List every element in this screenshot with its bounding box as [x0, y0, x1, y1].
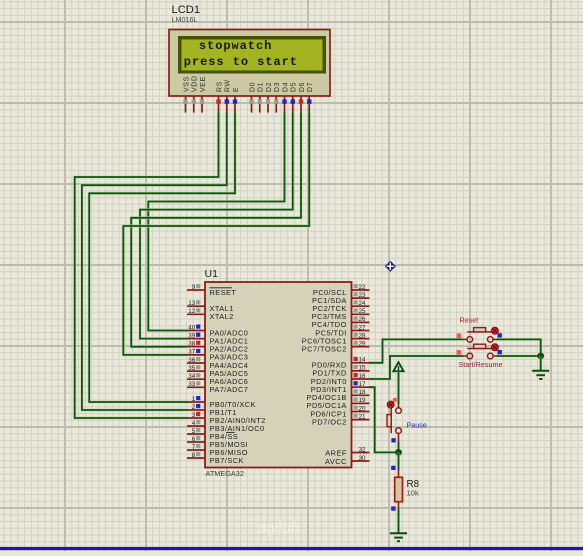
U1 pin 9 (RESET) stub, number, state square and name — [187, 284, 236, 297]
U1 pin 25 (PC3/TMS) stub, number, state square and name — [312, 308, 370, 321]
svg-text:35: 35 — [188, 365, 196, 372]
svg-text:22: 22 — [359, 284, 367, 291]
svg-text:7: 7 — [192, 444, 196, 451]
wire U1 PD3/INT1 (pin17) to Pause net junction — [369, 387, 399, 452]
svg-text:17: 17 — [359, 381, 367, 388]
ground symbol (buttons) — [532, 371, 549, 379]
wire LCD RW (pin5) to U1 PB1 — [82, 112, 227, 410]
svg-text:6: 6 — [192, 436, 196, 443]
U1 pin 20 (PD6/ICP1) stub, number, state square and name — [310, 405, 369, 418]
LCD1 pin 8 (D1) stub, state square and label — [258, 82, 265, 113]
svg-text:2: 2 — [192, 404, 196, 411]
R8 bottom state square — [391, 506, 395, 510]
U1 pin 12 (XTAL2) stub, number, state square and name — [187, 308, 234, 321]
junction node buttons/ground — [537, 353, 544, 360]
Reset button state squares — [457, 333, 502, 338]
svg-text:D5: D5 — [291, 82, 298, 92]
U1 pin 36 (PA4/ADC4) stub, number, state square and name — [187, 357, 248, 370]
svg-text:26: 26 — [359, 316, 367, 323]
U1 pin 21 (PD7/OC2) stub, number, state square and name — [312, 413, 369, 426]
svg-text:D2: D2 — [266, 82, 273, 92]
U1 pin 34 (PA6/ADC6) stub, number, state square and name — [187, 373, 248, 386]
svg-text:10k: 10k — [407, 489, 419, 498]
blue origin marker (diamond with cross) — [385, 261, 396, 272]
U1 pin 28 (PC6/TOSC1) stub, number, state square and name — [302, 332, 370, 345]
LCD module LCD1 (LM016L) body and screen — [169, 30, 330, 97]
svg-text:E: E — [233, 87, 240, 92]
U1 pin 19 (PD5/OC1A) stub, number, state square and name — [307, 397, 370, 410]
svg-text:VSS: VSS — [183, 76, 190, 92]
U1 pin 33 (PA7/ADC7) stub, number, state square and name — [187, 381, 248, 394]
ground symbol (below R8) — [390, 533, 407, 541]
U1 pin 6 (PB5/MOSI) stub, number, state square and name — [187, 436, 248, 449]
U1 pin 30 (AVCC) stub, number and name — [325, 455, 369, 466]
push button (Start/Resume) — [464, 344, 499, 359]
svg-text:PD7/OC2: PD7/OC2 — [312, 417, 347, 426]
svg-text:5: 5 — [192, 428, 196, 435]
svg-text:ATMEGA32: ATMEGA32 — [206, 469, 244, 478]
svg-text:18: 18 — [359, 389, 367, 396]
LCD1 pin 9 (D2) stub, state square and label — [266, 82, 273, 113]
svg-text:stopwatch: stopwatch — [199, 39, 272, 53]
svg-text:15: 15 — [359, 365, 367, 372]
U1 pin 2 (PB1/T1) stub, number, state square and name — [187, 404, 237, 417]
U1 pin 7 (PB6/MISO) stub, number, state square and name — [187, 444, 248, 457]
LCD1 pin 12 (D5) stub, state square and label — [291, 82, 298, 113]
svg-text:RESET: RESET — [210, 288, 237, 297]
svg-text:8: 8 — [192, 452, 196, 459]
wire power terminal to Pause button — [397, 371, 400, 404]
svg-text:38: 38 — [188, 341, 196, 348]
wire LCD RS (pin4) to U1 PB2 — [75, 112, 219, 418]
R8 top state square — [391, 466, 395, 470]
svg-text:XTAL2: XTAL2 — [210, 312, 234, 321]
U1 pin 32 (AREF) stub, number and name — [325, 446, 369, 457]
U1 pin 8 (PB7/SCK) stub, number, state square and name — [187, 452, 244, 465]
svg-text:36: 36 — [188, 357, 196, 364]
wire Start/Resume button to ground rail — [496, 354, 540, 357]
svg-text:D6: D6 — [299, 82, 306, 92]
LCD1 pin 14 (D7) stub, state square and label — [307, 82, 314, 113]
svg-text:20: 20 — [359, 405, 367, 412]
push button (Reset) — [464, 327, 499, 342]
svg-text:VDD: VDD — [192, 75, 199, 92]
svg-text:21: 21 — [359, 413, 367, 420]
svg-text:3: 3 — [192, 412, 196, 419]
svg-text:RW: RW — [225, 79, 232, 92]
LCD1 pin 6 (E) stub, state square and label — [233, 87, 240, 113]
wire LCD D7 (pin14) to U1 PA3 — [123, 112, 309, 355]
faint watermark — [258, 518, 300, 537]
svg-text:Start/Resume: Start/Resume — [459, 360, 503, 369]
push button (Pause), vertical — [387, 401, 401, 441]
LCD1 pin 10 (D3) stub, state square and label — [274, 82, 281, 113]
microcontroller U1 ATMEGA32 body — [205, 282, 352, 468]
svg-text:mylab: mylab — [258, 518, 300, 537]
U1 pin 3 (PB2/AIN0/INT2) stub, number, state square and name — [187, 412, 266, 425]
svg-text:PC7/TOSC2: PC7/TOSC2 — [302, 345, 347, 354]
svg-text:24: 24 — [359, 300, 367, 307]
LCD1 pin 7 (D0) stub, state square and label — [249, 82, 256, 113]
U1 pin 1 (PB0/T0/XCK) stub, number, state square and name — [187, 396, 256, 409]
svg-text:LM016L: LM016L — [172, 15, 198, 24]
wire R8 to ground — [397, 509, 400, 533]
Pause button state squares — [391, 398, 396, 443]
svg-text:34: 34 — [188, 373, 196, 380]
svg-text:33: 33 — [188, 381, 196, 388]
U1 pin 16 (PD2/INT0) stub, number, state square and name — [311, 373, 370, 386]
LCD1 pin 11 (D4) stub, state square and label — [282, 82, 289, 113]
U1 pin 39 (PA1/ADC1) stub, number, state square and name — [187, 332, 248, 345]
LCD module LCD1 reference label — [172, 4, 201, 24]
LCD1 pin 4 (RS) stub, state square and label — [216, 81, 223, 113]
svg-text:28: 28 — [359, 332, 367, 339]
U1 pin 29 (PC7/TOSC2) stub, number, state square and name — [302, 341, 370, 354]
svg-text:D4: D4 — [282, 82, 289, 92]
svg-text:30: 30 — [359, 455, 367, 462]
svg-text:AVCC: AVCC — [325, 457, 347, 466]
U1 pin 22 (PC0/SCL) stub, number, state square and name — [313, 284, 370, 297]
LCD1 pin 2 (VDD) stub, state square and label — [192, 75, 199, 112]
svg-text:RS: RS — [216, 81, 223, 92]
svg-text:40: 40 — [188, 324, 196, 331]
svg-text:37: 37 — [188, 349, 196, 356]
svg-text:9: 9 — [192, 284, 196, 291]
wire U1 PD0/RXD (pin14) to Reset button — [369, 339, 464, 362]
power terminal (VCC up-arrow) — [393, 362, 403, 371]
wire junction to ground symbol — [539, 356, 542, 371]
Start/Resume button state squares — [457, 350, 502, 355]
schematic sheet border (bottom) — [0, 547, 583, 550]
svg-text:4: 4 — [192, 420, 196, 427]
wire U1 PD2/INT0 (pin16) to Start/Resume button — [369, 356, 464, 379]
U1 pin 4 (PB3/AIN1/OC0) stub, number, state square and name — [187, 420, 265, 433]
svg-text:29: 29 — [359, 341, 367, 348]
wire Pause button to junction — [397, 442, 400, 453]
svg-text:D3: D3 — [274, 82, 281, 92]
svg-text:PB7/SCK: PB7/SCK — [210, 456, 244, 465]
svg-text:12: 12 — [188, 308, 196, 315]
U1 pin 18 (PD4/OC1B) stub, number, state square and name — [307, 389, 370, 402]
U1 pin 24 (PC2/TCK) stub, number, state square and name — [312, 300, 369, 313]
junction node Pause/PD3/R8 — [395, 449, 402, 456]
svg-text:Pause: Pause — [407, 421, 427, 430]
svg-text:25: 25 — [359, 308, 367, 315]
svg-text:PA7/ADC7: PA7/ADC7 — [210, 385, 249, 394]
U1 pin 40 (PA0/ADC0) stub, number, state square and name — [187, 324, 248, 337]
LCD1 pin 5 (RW) stub, state square and label — [225, 79, 232, 112]
U1 pin 14 (PD0/RXD) stub, number, state square and name — [312, 357, 370, 370]
svg-text:19: 19 — [359, 397, 367, 404]
svg-text:39: 39 — [188, 332, 196, 339]
svg-text:14: 14 — [359, 357, 367, 364]
LCD1 pin 1 (VSS) stub, state square and label — [183, 76, 190, 112]
svg-text:Reset: Reset — [460, 315, 479, 324]
LCD1 pin 13 (D6) stub, state square and label — [299, 82, 306, 113]
svg-text:16: 16 — [359, 373, 367, 380]
U1 pin 23 (PC1/SDA) stub, number, state square and name — [312, 292, 369, 305]
svg-text:27: 27 — [359, 324, 367, 331]
U1 pin 17 (PD3/INT1) stub, number, state square and name — [311, 381, 370, 394]
svg-text:13: 13 — [188, 300, 196, 307]
wire LCD D4 (pin11) to U1 PA0 — [148, 112, 284, 330]
svg-text:D0: D0 — [249, 82, 256, 92]
resistor R8 10k — [395, 470, 403, 509]
svg-text:D7: D7 — [307, 82, 314, 92]
svg-text:1: 1 — [192, 396, 196, 403]
U1 pin 15 (PD1/TXD) stub, number, state square and name — [312, 365, 369, 378]
wire junction to resistor R8 — [397, 452, 400, 470]
U1 pin 37 (PA3/ADC3) stub, number, state square and name — [187, 349, 248, 362]
U1 pin 5 (PB4/SS) stub, number, state square and name — [187, 428, 238, 441]
wire LCD D6 (pin13) to U1 PA2 — [131, 112, 301, 347]
svg-text:D1: D1 — [258, 82, 265, 92]
wire LCD E (pin6) to U1 PB0 — [89, 112, 235, 402]
U1 pin 38 (PA2/ADC2) stub, number, state square and name — [187, 341, 248, 354]
svg-text:32: 32 — [359, 446, 367, 453]
svg-text:press to start: press to start — [184, 55, 298, 69]
svg-text:VEE: VEE — [200, 76, 207, 92]
wire LCD D5 (pin12) to U1 PA1 — [140, 112, 293, 338]
U1 pin 26 (PC4/TDO) stub, number, state square and name — [312, 316, 370, 329]
U1 pin 35 (PA5/ADC5) stub, number, state square and name — [187, 365, 248, 378]
svg-text:U1: U1 — [205, 268, 219, 280]
U1 pin 27 (PC5/TDI) stub, number, state square and name — [315, 324, 369, 337]
U1 pin 13 (XTAL1) stub, number, state square and name — [187, 300, 234, 313]
wire Reset button to ground rail — [496, 339, 540, 356]
LCD1 pin 3 (VEE) stub, state square and label — [200, 76, 207, 112]
svg-text:23: 23 — [359, 292, 367, 299]
